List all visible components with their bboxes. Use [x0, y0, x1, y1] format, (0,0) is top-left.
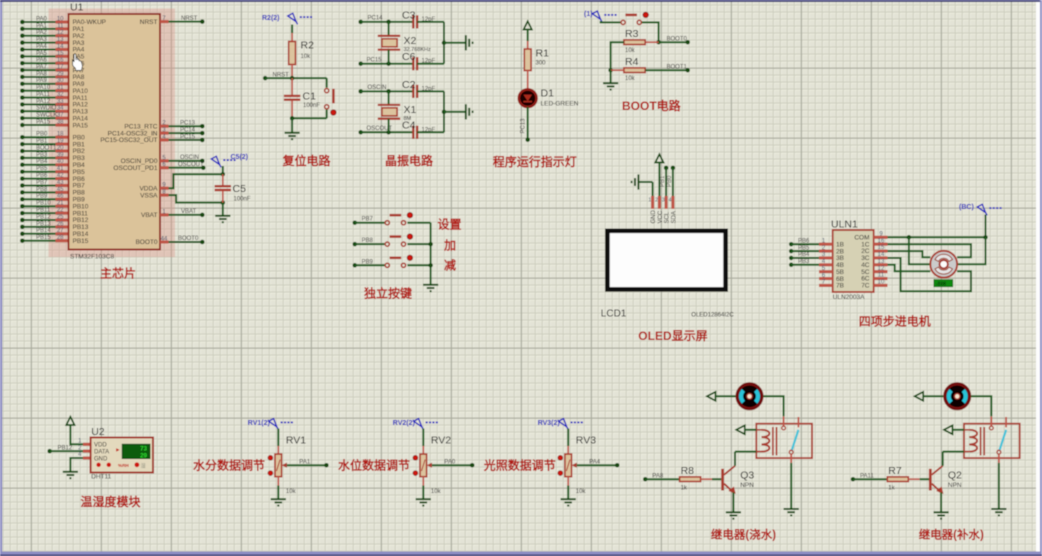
node VSSA/C5 [221, 200, 226, 205]
power flag RV1(2) [248, 419, 294, 430]
ground [726, 512, 741, 518]
stepper motor MOTOR-4PH [930, 251, 957, 278]
wire 4C to motor coil D [888, 265, 931, 271]
svg-text:13: 13 [878, 259, 885, 265]
svg-text:41: 41 [57, 166, 64, 172]
svg-text:主芯片: 主芯片 [100, 266, 136, 281]
svg-text:PA12: PA12 [36, 99, 51, 105]
power terminal for R1 [524, 21, 532, 29]
svg-text:21: 21 [57, 201, 64, 207]
power flag R2(2) [262, 13, 313, 24]
svg-text:OLED显示屏: OLED显示屏 [638, 329, 707, 343]
crystal ground bus [443, 22, 445, 64]
svg-text:DHT11: DHT11 [91, 474, 111, 481]
svg-text:25: 25 [57, 214, 64, 220]
svg-text:C5(2): C5(2) [231, 154, 249, 161]
svg-text:SCL: SCL [665, 211, 671, 223]
wire PC14 row [361, 21, 413, 23]
svg-text:PC15: PC15 [180, 134, 196, 140]
svg-text:PB6: PB6 [36, 173, 48, 179]
terminal SDA/PB0 [671, 166, 676, 171]
wire RV3 to ground [567, 486, 569, 500]
wire motor to relay contact [971, 396, 991, 416]
terminal PB8 [353, 242, 358, 247]
ULN1 right pins COM and 1C-7C [874, 236, 888, 239]
svg-text:独立按键: 独立按键 [363, 286, 412, 301]
svg-text:PB9: PB9 [36, 194, 48, 200]
wire SDA [672, 168, 674, 196]
terminal PA1 [324, 463, 329, 468]
svg-text:PA7: PA7 [36, 64, 48, 70]
relay contacts and blade [783, 416, 785, 425]
svg-text:7C: 7C [861, 283, 870, 290]
wire motor to relay contact [763, 396, 783, 416]
svg-text:PA9: PA9 [36, 78, 48, 84]
terminal PC15 [358, 61, 363, 65]
wire PB8 to button [355, 243, 385, 245]
svg-text:19: 19 [57, 139, 64, 145]
svg-text:17: 17 [57, 64, 64, 70]
svg-text:30: 30 [57, 78, 64, 84]
wire BOOT0 (pin 44) [169, 241, 203, 243]
resistor R7 [887, 477, 908, 482]
svg-text:X1: X1 [404, 104, 417, 116]
wire RV2 wiper to PA0 [432, 464, 472, 466]
wire coil bottom to collector [735, 451, 756, 453]
svg-text:NPN: NPN [948, 482, 962, 489]
svg-text:PA6: PA6 [36, 58, 48, 64]
wire flag to COM rail [985, 215, 987, 238]
U2 pin stubs [83, 443, 91, 446]
junction PC14/crystal [386, 20, 391, 25]
ground [991, 509, 1006, 515]
ground [466, 104, 473, 119]
svg-text:1: 1 [648, 198, 651, 204]
svg-text:NRST: NRST [140, 19, 158, 26]
svg-text:10k: 10k [625, 76, 636, 82]
wire R3 to R4 junction [611, 42, 624, 70]
svg-text:38: 38 [57, 119, 64, 125]
wire button to bottom [326, 110, 328, 119]
wire VDDA to C5 [169, 174, 223, 188]
svg-text:C2: C2 [402, 79, 416, 91]
C1 top lead [291, 78, 293, 95]
sheet border frame [0, 0, 1042, 2]
svg-text:31: 31 [57, 85, 64, 91]
wire Q2 collector to relay coil [942, 452, 944, 466]
wire button PB8 to common [407, 243, 430, 245]
svg-text:GND: GND [651, 210, 657, 224]
transistor Q3 NPN [723, 466, 735, 493]
svg-text:PA1: PA1 [36, 23, 48, 29]
svg-text:BOOT1: BOOT1 [36, 145, 57, 151]
wire bottom of C1/button [292, 117, 327, 119]
svg-text:STM32F103C8: STM32F103C8 [70, 254, 114, 261]
svg-text:15: 15 [57, 51, 64, 57]
svg-text:NRST: NRST [181, 16, 198, 22]
svg-text:R1: R1 [536, 48, 550, 60]
svg-text:NPN: NPN [740, 482, 754, 489]
svg-text:PB15: PB15 [36, 235, 51, 241]
R3 right lead [645, 41, 658, 43]
sensor U2 DHT11 body [91, 438, 153, 473]
ground [603, 83, 618, 89]
svg-text:PA5: PA5 [36, 51, 48, 57]
svg-text:ULN1: ULN1 [831, 219, 858, 231]
DC motor (pump) [945, 384, 970, 409]
svg-text:减: 减 [444, 258, 456, 273]
svg-text:PB0: PB0 [36, 132, 48, 138]
RV3 top lead [567, 446, 569, 454]
U1 right pin stubs, numbers and internal names [160, 20, 169, 23]
junction R3/R4/ground [608, 68, 613, 73]
wire power to VDD [70, 425, 83, 444]
driver ULN1 body [833, 230, 874, 292]
capacitor C2 [413, 85, 417, 98]
svg-text:1k: 1k [681, 486, 688, 492]
wire C5 top [222, 166, 224, 174]
junction OSCIN/crystal [386, 89, 391, 94]
svg-text:PA3: PA3 [36, 37, 48, 43]
R7 right lead [908, 478, 919, 480]
ground [416, 499, 431, 505]
wire COM rail [888, 236, 986, 238]
potentiometer RV1 [275, 454, 282, 477]
svg-text:R7: R7 [888, 465, 902, 477]
wire relay contact to ground [790, 463, 792, 509]
capacitor C4 [413, 126, 417, 139]
wire bus to ground [444, 42, 466, 44]
svg-text:100nF: 100nF [234, 197, 251, 203]
capacitor C6 [413, 57, 417, 70]
svg-text:R2: R2 [301, 40, 315, 52]
power terminal for U2 VDD [66, 417, 74, 425]
wire C3 to bus [417, 21, 444, 23]
power flag RV3(2) [538, 419, 584, 430]
capacitor C5 [215, 186, 231, 190]
power terminal for OLED VCC [655, 154, 663, 162]
junction C1 bottom [290, 116, 295, 121]
ground [784, 509, 799, 515]
R2 top lead [291, 33, 293, 42]
wire RV3 wiper to PA4 [577, 464, 617, 466]
svg-text:(1): (1) [584, 11, 593, 18]
svg-text:14: 14 [878, 252, 885, 258]
svg-text:C5: C5 [233, 183, 247, 195]
svg-text:PB4: PB4 [798, 252, 810, 258]
svg-text:PB5: PB5 [36, 166, 48, 172]
svg-text:3: 3 [662, 198, 665, 204]
wire VBAT [169, 214, 203, 216]
svg-text:PB3: PB3 [36, 152, 48, 158]
wire PB12 to DATA [50, 450, 83, 452]
U1 PB0-PB15 left pin wires, terminals and net labels [23, 136, 56, 138]
svg-text:PB14: PB14 [36, 228, 51, 234]
potentiometer RV2 [420, 454, 427, 477]
svg-text:GND: GND [94, 456, 108, 462]
wire C2 to bus [417, 90, 444, 92]
wire RV1 to ground [277, 486, 279, 500]
svg-text:PB1: PB1 [660, 175, 666, 187]
svg-text:C6: C6 [402, 51, 416, 63]
svg-text:温湿度模块: 温湿度模块 [81, 494, 142, 509]
crystal X1 bottom lead [388, 119, 390, 132]
svg-text:RV2(2): RV2(2) [393, 420, 415, 427]
wire power to relay coil [953, 429, 965, 431]
capacitor C5 bottom lead [222, 191, 224, 203]
wire R1 to D1 [527, 71, 529, 90]
svg-text:PC15: PC15 [367, 58, 383, 64]
svg-text:45: 45 [57, 187, 64, 193]
svg-text:R3: R3 [625, 28, 639, 40]
svg-text:PA15: PA15 [73, 122, 89, 129]
crystal X1 [378, 105, 400, 119]
svg-text:PA0: PA0 [444, 459, 456, 465]
wire power to RV1 [277, 429, 279, 447]
terminal OSCOUT [358, 130, 363, 135]
wire coil bottom to collector [943, 451, 964, 453]
wire relay contact to ground [998, 463, 1000, 509]
C1 bottom lead [291, 101, 293, 119]
RV2 bottom lead [422, 477, 424, 486]
wires PC13 PC14 PC15 [169, 125, 203, 127]
wire to BOOT0 terminal [659, 41, 688, 43]
svg-text:10: 10 [878, 280, 885, 286]
svg-text:C1: C1 [303, 91, 317, 103]
svg-text:PA0: PA0 [36, 16, 48, 22]
wire button PB7 to common [407, 222, 430, 224]
junction COM/left tap [907, 235, 912, 240]
stepper motor rpm display [934, 280, 953, 287]
svg-text:VDD: VDD [94, 443, 107, 449]
terminal PC13 [525, 137, 530, 142]
wire COM to motor right common [957, 237, 985, 264]
wire R7 to Q2 base [920, 478, 929, 480]
wire D1 to PC13 terminal [527, 107, 529, 140]
svg-text:SWDIO: SWDIO [36, 106, 57, 112]
ground [423, 285, 438, 291]
U1 selection highlight [49, 9, 176, 258]
svg-text:LED-GREEN: LED-GREEN [541, 101, 579, 108]
svg-text:2: 2 [655, 198, 658, 204]
power flag RV2(2) [393, 419, 439, 430]
terminal PA4 [615, 463, 620, 468]
svg-text:X2: X2 [404, 35, 417, 47]
svg-text:PB4: PB4 [36, 159, 48, 165]
wire 3C to motor coil C [888, 258, 972, 291]
svg-text:C4: C4 [402, 120, 416, 132]
wire Q2 emitter to ground [940, 492, 942, 512]
resistor R2 [289, 42, 296, 65]
svg-text:R4: R4 [625, 56, 639, 68]
power flag (BC) [959, 204, 1003, 215]
svg-text:4: 4 [669, 198, 672, 204]
power terminal for motor [915, 392, 924, 401]
svg-text:PB11: PB11 [36, 208, 51, 214]
wire C6 to bus [417, 63, 444, 65]
svg-text:OSCIN: OSCIN [368, 85, 387, 91]
svg-text:-888: -888 [936, 281, 946, 287]
ULN1 left pins 1B-7B [819, 243, 833, 246]
wire R8 to Q3 base [712, 478, 721, 480]
crystal X2 top lead [388, 22, 390, 36]
svg-text:继电器(补水): 继电器(补水) [919, 527, 984, 541]
wire PC15 row [361, 63, 413, 65]
svg-text:RV2: RV2 [431, 435, 451, 447]
svg-text:PA4: PA4 [36, 44, 48, 50]
svg-text:PA10: PA10 [36, 85, 51, 91]
crystal X2 bottom lead [388, 50, 390, 64]
wire PA8 to R8 [645, 478, 679, 480]
power terminal for relay coil [736, 425, 745, 434]
crystal X1 top lead [388, 91, 390, 104]
relay contacts and blade [990, 416, 992, 425]
wire to R2 [291, 25, 293, 34]
ULN1 input wires PB6 PB5 PB4 PB3 [789, 242, 794, 247]
junction BOOT0 [656, 40, 661, 45]
svg-text:16: 16 [57, 58, 64, 64]
wire PB9 to button [355, 264, 385, 266]
U2 LCD readout [122, 444, 150, 458]
node VDDA/C5 [221, 172, 226, 177]
svg-text:PB8: PB8 [36, 187, 48, 193]
ground [63, 472, 78, 478]
svg-text:U1: U1 [70, 2, 84, 14]
svg-text:12: 12 [878, 266, 885, 272]
svg-text:VSSA: VSSA [140, 192, 158, 199]
svg-text:PA2: PA2 [36, 30, 48, 36]
svg-text:32: 32 [57, 92, 64, 98]
svg-text:BOOT0: BOOT0 [667, 36, 688, 42]
svg-text:DATA: DATA [94, 449, 109, 455]
svg-text:VCC: VCC [658, 210, 664, 223]
svg-text:44: 44 [161, 236, 168, 242]
svg-text:设置: 设置 [438, 217, 462, 232]
push button PB8 [385, 234, 412, 246]
push button PB9 [385, 255, 412, 267]
svg-text:(BC): (BC) [959, 204, 974, 211]
svg-text:7B: 7B [836, 283, 844, 290]
svg-text:10k: 10k [301, 54, 312, 60]
svg-text:PB7: PB7 [36, 180, 48, 186]
svg-text:RV1: RV1 [286, 435, 306, 447]
svg-text:PB3: PB3 [798, 259, 810, 265]
wire VSSA to C5 [169, 195, 223, 203]
terminal NRST [263, 76, 268, 81]
relay coil and contact (继电器) [756, 424, 812, 458]
RV1 bottom lead [277, 477, 279, 486]
svg-text:加: 加 [443, 238, 456, 253]
svg-text:晶振电路: 晶振电路 [385, 153, 434, 168]
LED D1 [519, 89, 537, 107]
svg-text:R2(2): R2(2) [262, 15, 280, 22]
svg-text:R8: R8 [681, 465, 695, 477]
wire Q3 collector to relay coil [734, 452, 736, 466]
svg-text:20: 20 [57, 145, 64, 151]
svg-text:13: 13 [57, 37, 64, 43]
wire button PB9 to common [407, 264, 430, 266]
svg-text:73: 73 [140, 446, 147, 453]
svg-text:43: 43 [57, 180, 64, 186]
svg-text:PB13: PB13 [36, 221, 51, 227]
svg-text:RV3(2): RV3(2) [538, 420, 560, 427]
crystal X2 [378, 36, 400, 50]
junction OSCOUT/crystal [386, 130, 391, 135]
svg-text:Q2: Q2 [948, 470, 962, 482]
svg-text:28: 28 [57, 235, 64, 241]
reset button K1 [326, 78, 328, 88]
U2 indicator dots [96, 463, 100, 467]
capacitor C5 top lead [222, 174, 224, 185]
svg-text:RV3: RV3 [576, 435, 596, 447]
RV1 top lead [277, 446, 279, 454]
svg-text:Q3: Q3 [740, 470, 754, 482]
wire to BOOT1 terminal [645, 69, 687, 71]
wire NRST node [265, 77, 327, 79]
svg-text:PB0: PB0 [667, 175, 673, 187]
svg-text:39: 39 [57, 152, 64, 158]
R1 top lead [527, 41, 529, 49]
wire power to relay coil [745, 429, 757, 431]
svg-text:继电器(浇水): 继电器(浇水) [711, 527, 776, 541]
terminal OSCIN [358, 89, 363, 94]
svg-text:BOOT1: BOOT1 [667, 64, 688, 70]
resistor R8 [680, 477, 701, 482]
RV3 bottom lead [567, 477, 569, 486]
wire PB7 to button [355, 222, 385, 224]
wire 2C to motor coil B [888, 251, 931, 257]
svg-text:26: 26 [57, 221, 64, 227]
wire GND to ground [639, 181, 653, 183]
wire to ground [291, 118, 293, 132]
svg-text:11: 11 [878, 273, 885, 279]
svg-text:D1: D1 [541, 88, 555, 100]
LCD1 pin stubs and pin names [651, 196, 654, 209]
svg-text:RV1(2): RV1(2) [248, 420, 270, 427]
svg-text:42: 42 [57, 173, 64, 179]
junction COM/right tap [983, 235, 988, 240]
svg-text:34: 34 [57, 106, 64, 112]
svg-text:BOOT电路: BOOT电路 [622, 98, 682, 113]
wire OSCIN [169, 160, 203, 162]
svg-text:LCD1: LCD1 [601, 309, 627, 320]
power terminal for relay coil [944, 425, 953, 434]
wire C4 to bus [417, 131, 444, 133]
wire bus to ground [444, 111, 466, 113]
terminal PB12 [47, 449, 52, 454]
svg-text:10: 10 [57, 16, 64, 22]
svg-text:22: 22 [57, 208, 64, 214]
resistor R1 [524, 49, 531, 71]
svg-text:PA15: PA15 [36, 119, 51, 125]
power flag C5(2) [211, 154, 248, 167]
display LCD1 OLED body [607, 231, 725, 290]
wire RV1 wiper to PA1 [287, 464, 327, 466]
wire power to RV3 [567, 429, 569, 447]
power flag (1) [584, 11, 618, 22]
junction bus/ground [442, 110, 447, 115]
ground [215, 216, 230, 222]
svg-text:29: 29 [140, 453, 147, 460]
terminal PA0 [470, 463, 475, 468]
R8 right lead [701, 478, 712, 480]
terminal SCL/PB1 [664, 166, 669, 171]
wire to ground [610, 70, 612, 83]
ground [271, 499, 286, 505]
wire PA11 to R7 [853, 478, 887, 480]
terminal BOOT0 [685, 40, 690, 45]
wire button to BOOT0 node [642, 22, 659, 42]
